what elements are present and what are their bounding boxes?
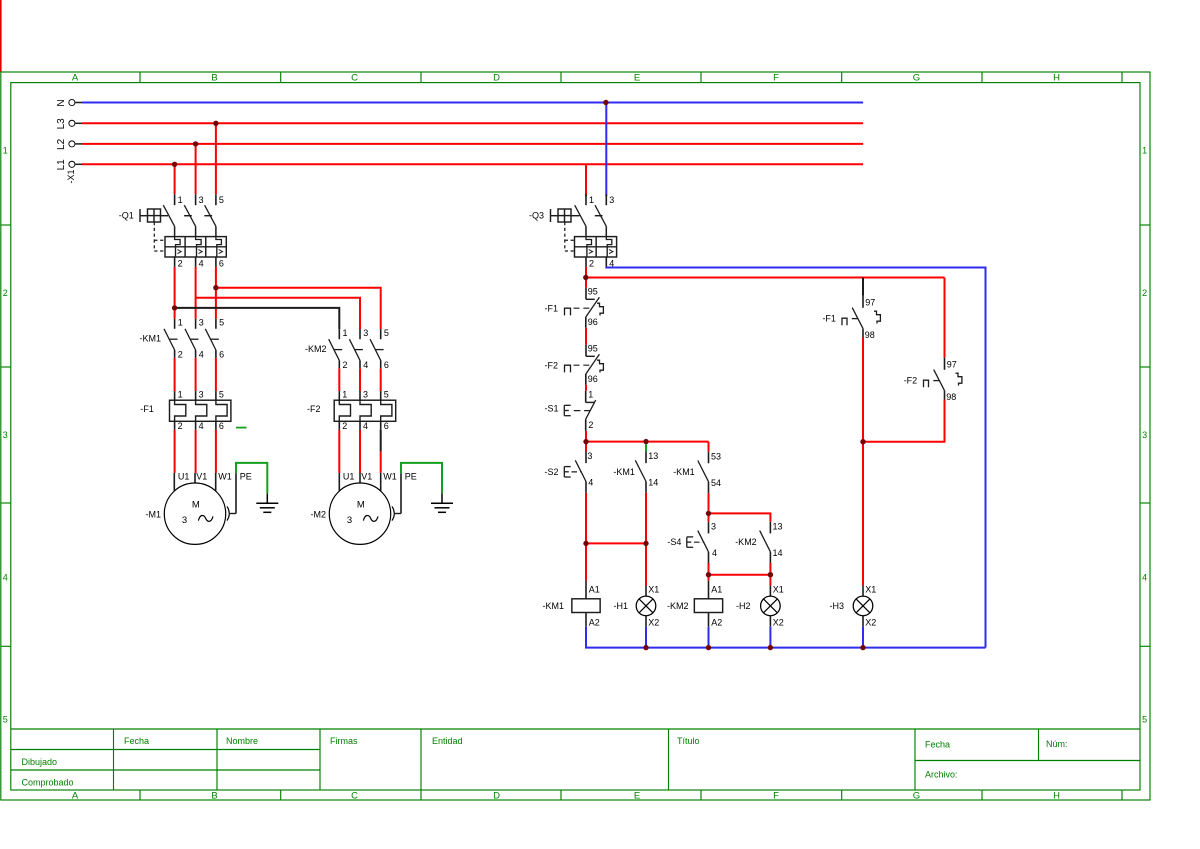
svg-text:X1: X1 bbox=[865, 585, 876, 595]
svg-text:D: D bbox=[493, 72, 500, 83]
svg-text:V1: V1 bbox=[196, 472, 207, 482]
svg-text:PE: PE bbox=[405, 472, 417, 482]
wire feeder to KM2 pin 3 bbox=[196, 298, 360, 329]
svg-text:3: 3 bbox=[199, 195, 204, 205]
svg-text:L1: L1 bbox=[56, 159, 67, 171]
pushbutton S1 stop NC bbox=[545, 390, 596, 431]
svg-text:Fecha: Fecha bbox=[124, 736, 149, 746]
svg-text:6: 6 bbox=[219, 258, 224, 268]
wire bus N bbox=[82, 102, 863, 104]
svg-text:A: A bbox=[72, 790, 79, 801]
svg-text:6: 6 bbox=[384, 421, 389, 431]
svg-text:-X1: -X1 bbox=[66, 169, 76, 183]
thermal overload relay F1 bbox=[140, 390, 231, 431]
svg-text:Núm:: Núm: bbox=[1046, 739, 1068, 749]
svg-text:C: C bbox=[351, 72, 358, 83]
svg-text:-KM2: -KM2 bbox=[735, 537, 757, 547]
svg-text:4: 4 bbox=[363, 360, 368, 370]
earth ground of motor M2 bbox=[431, 494, 453, 513]
svg-text:-S2: -S2 bbox=[545, 467, 559, 477]
svg-text:3: 3 bbox=[347, 515, 352, 526]
wire F1 pin 4 to M1 V1 bbox=[195, 430, 197, 473]
wire L2 down to Q1 pin 3 bbox=[195, 144, 197, 194]
svg-text:2: 2 bbox=[588, 420, 593, 430]
svg-text:3: 3 bbox=[587, 451, 592, 461]
wire to H1 X1 bbox=[645, 543, 647, 585]
junction KM2 A2 on N bbox=[706, 645, 711, 650]
svg-text:-S1: -S1 bbox=[545, 404, 559, 414]
svg-text:X1: X1 bbox=[773, 585, 784, 595]
svg-text:-H2: -H2 bbox=[736, 601, 751, 611]
junction H3 X2 on N bbox=[860, 645, 865, 650]
svg-text:2: 2 bbox=[178, 421, 183, 431]
wire Q1 pin 4 to KM1 pin 3 bbox=[195, 267, 197, 319]
svg-text:-F1: -F1 bbox=[822, 313, 836, 323]
svg-text:Dibujado: Dibujado bbox=[22, 757, 58, 767]
junction S4 to KM2 rung left bbox=[706, 572, 711, 577]
terminal L3 of strip -X1 bbox=[56, 118, 82, 130]
wire L1 down to Q1 pin 1 bbox=[174, 164, 176, 194]
junction N to Q3 bbox=[603, 100, 608, 105]
svg-text:A1: A1 bbox=[711, 585, 722, 595]
svg-text:Firmas: Firmas bbox=[330, 736, 358, 746]
wire H2 X2 to N bbox=[769, 627, 771, 648]
wire F1 pin 6 to M1 W1 bbox=[215, 430, 217, 473]
junction S2 retention left bbox=[583, 541, 588, 546]
svg-text:Nombre: Nombre bbox=[226, 736, 258, 746]
svg-text:4: 4 bbox=[3, 573, 8, 583]
svg-text:-KM1: -KM1 bbox=[673, 467, 695, 477]
wire KM1 to F1 pole 1 bbox=[174, 358, 176, 391]
wire rung to S4 pin 3 bbox=[708, 513, 710, 521]
wire control L bus bbox=[586, 277, 945, 279]
circuit breaker Q1 bbox=[119, 194, 227, 268]
wire feeder to KM2 pin 1 bbox=[175, 308, 340, 329]
svg-text:Entidad: Entidad bbox=[432, 736, 463, 746]
svg-text:1: 1 bbox=[178, 318, 183, 328]
svg-text:3: 3 bbox=[199, 318, 204, 328]
svg-text:M: M bbox=[192, 500, 200, 511]
svg-text:H: H bbox=[1053, 72, 1060, 83]
wire Q1 pin 6 to KM1 pin 5 bbox=[215, 267, 217, 319]
wire bus L3 bbox=[82, 122, 863, 124]
svg-text:E: E bbox=[634, 72, 640, 83]
svg-text:96: 96 bbox=[588, 374, 598, 384]
wire F1 96 to F2 95 bbox=[585, 328, 587, 345]
wire F2 98 to junction rung bbox=[863, 400, 945, 442]
svg-text:97: 97 bbox=[947, 359, 957, 369]
wire rung to KM1 pin 53 bbox=[708, 442, 710, 452]
svg-text:5: 5 bbox=[384, 328, 389, 338]
svg-text:F: F bbox=[773, 790, 779, 801]
svg-text:13: 13 bbox=[648, 451, 658, 461]
contactor coil KM2 bbox=[667, 581, 723, 628]
wire KM2 to F2 pole 5 bbox=[380, 368, 382, 391]
junction L3 to Q1 bbox=[213, 121, 218, 126]
svg-text:-KM1: -KM1 bbox=[613, 467, 635, 477]
svg-text:-H3: -H3 bbox=[830, 601, 845, 611]
junction H2 X2 on N bbox=[768, 645, 773, 650]
indicator lamp H2 bbox=[736, 585, 784, 628]
thermal overload relay F2 bbox=[307, 390, 396, 431]
svg-text:6: 6 bbox=[219, 349, 224, 359]
svg-text:A1: A1 bbox=[589, 585, 600, 595]
svg-text:2: 2 bbox=[589, 258, 594, 268]
wire L1 down to Q3 pin 1 bbox=[585, 164, 587, 196]
wire retention rung bbox=[586, 542, 646, 544]
F1 auxiliary NC contact 95-96 bbox=[545, 287, 604, 328]
pushbutton S2 start NO bbox=[545, 451, 594, 493]
junction L1 to Q1 bbox=[172, 162, 177, 167]
wire F2 pin 6 to M2 W1 red bbox=[380, 451, 382, 473]
svg-text:2: 2 bbox=[178, 349, 183, 359]
label terminal strip -X1 bbox=[66, 169, 76, 183]
svg-text:Título: Título bbox=[677, 736, 700, 746]
svg-text:95: 95 bbox=[588, 287, 598, 297]
svg-text:3: 3 bbox=[182, 515, 187, 526]
wire KM1 to F1 pole 3 bbox=[195, 358, 197, 391]
junction F1 98 with F2 98 bbox=[860, 439, 865, 444]
svg-text:6: 6 bbox=[219, 421, 224, 431]
svg-text:F: F bbox=[773, 72, 779, 83]
wire S2 pin 4 down bbox=[585, 493, 587, 544]
svg-text:-Q3: -Q3 bbox=[529, 211, 544, 221]
svg-text:C: C bbox=[351, 790, 358, 801]
wire F2 pin 2 to M2 U1 bbox=[338, 430, 340, 473]
wire rung to KM1 13 and 53 bbox=[586, 441, 709, 443]
wire bus L2 bbox=[82, 143, 863, 145]
svg-text:-KM2: -KM2 bbox=[305, 344, 327, 354]
svg-text:14: 14 bbox=[773, 548, 783, 558]
wire control bus to F1 97 bbox=[862, 278, 864, 296]
wire rung to KM2 13 bbox=[709, 513, 771, 521]
svg-text:1: 1 bbox=[588, 390, 593, 400]
svg-text:U1: U1 bbox=[178, 472, 190, 482]
svg-text:V1: V1 bbox=[361, 472, 372, 482]
svg-text:D: D bbox=[493, 790, 500, 801]
wire control bus corner to F2 97 bbox=[944, 278, 946, 358]
junction rung to KM1 13 bbox=[643, 439, 648, 444]
junction L2 to Q1 bbox=[193, 141, 198, 146]
svg-text:-F1: -F1 bbox=[140, 404, 154, 414]
svg-text:-S4: -S4 bbox=[667, 537, 681, 547]
junction KM2 rung right bbox=[768, 572, 773, 577]
svg-text:L3: L3 bbox=[56, 118, 67, 130]
svg-text:B: B bbox=[211, 790, 217, 801]
svg-text:-F2: -F2 bbox=[307, 404, 321, 414]
svg-text:4: 4 bbox=[199, 421, 204, 431]
svg-text:5: 5 bbox=[384, 390, 389, 400]
svg-text:1: 1 bbox=[3, 146, 8, 156]
svg-text:3: 3 bbox=[1142, 430, 1147, 440]
svg-text:4: 4 bbox=[199, 349, 204, 359]
svg-text:E: E bbox=[634, 790, 640, 801]
svg-text:4: 4 bbox=[363, 421, 368, 431]
svg-text:4: 4 bbox=[712, 548, 717, 558]
wire KM1 A2 to N bbox=[586, 627, 986, 648]
contactor KM1 main contacts bbox=[140, 318, 225, 360]
wire F2 pin 4 to M2 V1 bbox=[359, 430, 361, 473]
wire to KM1 coil A1 bbox=[585, 543, 587, 580]
svg-text:14: 14 bbox=[648, 478, 658, 488]
KM1 auxiliary contact 53-54 bbox=[673, 451, 721, 493]
svg-text:-KM1: -KM1 bbox=[543, 601, 565, 611]
svg-text:W1: W1 bbox=[383, 472, 397, 482]
KM2 auxiliary contact 13-14 bbox=[735, 522, 782, 564]
svg-text:A2: A2 bbox=[589, 617, 600, 627]
circuit breaker Q3 bbox=[529, 194, 617, 268]
F1 auxiliary NO contact 97-98 bbox=[822, 296, 880, 340]
wire bus L1 bbox=[82, 163, 863, 165]
svg-text:1: 1 bbox=[342, 390, 347, 400]
svg-text:X2: X2 bbox=[773, 617, 784, 627]
svg-text:H: H bbox=[1053, 790, 1060, 801]
svg-text:6: 6 bbox=[384, 360, 389, 370]
svg-text:PE: PE bbox=[240, 472, 252, 482]
wire PE of motor M1 to earth bbox=[236, 463, 267, 494]
svg-text:M: M bbox=[357, 500, 365, 511]
wire F2 pin 6 to M2 W1 black bbox=[380, 430, 382, 452]
svg-text:-Q1: -Q1 bbox=[119, 211, 134, 221]
stray wire segment green bbox=[236, 427, 247, 429]
svg-text:4: 4 bbox=[199, 258, 204, 268]
wire KM1 pin 14 down bbox=[645, 493, 647, 544]
svg-text:X2: X2 bbox=[865, 617, 876, 627]
wire L3 down to Q1 pin 5 bbox=[215, 123, 217, 194]
wire KM2 A2 to N bbox=[708, 627, 710, 648]
svg-text:X2: X2 bbox=[648, 617, 659, 627]
junction H1 X2 on N bbox=[643, 645, 648, 650]
svg-text:L2: L2 bbox=[56, 138, 67, 150]
svg-text:-F2: -F2 bbox=[545, 360, 559, 370]
svg-text:5: 5 bbox=[219, 195, 224, 205]
svg-text:Archivo:: Archivo: bbox=[925, 770, 958, 780]
svg-text:54: 54 bbox=[711, 478, 721, 488]
svg-text:-F2: -F2 bbox=[904, 375, 918, 385]
wire KM2 pin 14 down bbox=[769, 563, 771, 575]
svg-text:1: 1 bbox=[178, 195, 183, 205]
svg-text:-M2: -M2 bbox=[311, 510, 327, 520]
svg-text:53: 53 bbox=[711, 451, 721, 461]
wire Q1 pin 2 to KM1 pin 1 bbox=[174, 267, 176, 319]
motor M2 bbox=[311, 472, 417, 545]
wire KM1 pin 54 down bbox=[708, 493, 710, 514]
svg-text:A2: A2 bbox=[711, 617, 722, 627]
svg-text:G: G bbox=[913, 72, 920, 83]
svg-text:2: 2 bbox=[342, 421, 347, 431]
svg-text:-KM2: -KM2 bbox=[667, 601, 689, 611]
earth ground of motor M1 bbox=[256, 494, 278, 513]
svg-text:3: 3 bbox=[199, 390, 204, 400]
wire to KM2 coil A1 bbox=[708, 575, 710, 581]
indicator lamp H3 bbox=[830, 585, 877, 628]
junction control L bus bbox=[583, 275, 588, 280]
wire N down to Q3 pin 3 bbox=[605, 103, 607, 197]
svg-text:3: 3 bbox=[363, 390, 368, 400]
svg-text:5: 5 bbox=[219, 318, 224, 328]
svg-text:2: 2 bbox=[3, 288, 8, 298]
KM1 auxiliary contact 13-14 bbox=[613, 451, 658, 493]
wire control N from Q3 pin 4 bbox=[606, 267, 985, 648]
svg-text:A: A bbox=[72, 72, 79, 83]
svg-text:13: 13 bbox=[773, 522, 783, 532]
indicator lamp H1 bbox=[614, 585, 660, 628]
wire H3 X2 to N bbox=[862, 627, 864, 648]
wire F2 96 to S1 pin 1 bbox=[585, 385, 587, 391]
svg-text:3: 3 bbox=[363, 328, 368, 338]
wire to H2 X1 bbox=[769, 575, 771, 586]
svg-text:Comprobado: Comprobado bbox=[22, 777, 74, 787]
wire F1 98 down to H3 bbox=[862, 338, 864, 586]
svg-text:-KM1: -KM1 bbox=[140, 334, 162, 344]
F2 auxiliary NC contact 95-96 bbox=[545, 344, 604, 385]
svg-text:5: 5 bbox=[3, 715, 8, 725]
terminal L1 of strip -X1 bbox=[56, 159, 82, 171]
wire S1 pin 2 down bbox=[585, 431, 587, 442]
svg-text:B: B bbox=[211, 72, 217, 83]
svg-text:1: 1 bbox=[1142, 146, 1147, 156]
svg-text:2: 2 bbox=[178, 258, 183, 268]
wire KM2 to F2 pole 1 bbox=[338, 368, 340, 391]
svg-text:N: N bbox=[56, 99, 67, 106]
svg-text:2: 2 bbox=[343, 360, 348, 370]
svg-text:2: 2 bbox=[1142, 288, 1147, 298]
junction KM1 retention right bbox=[643, 541, 648, 546]
svg-text:X1: X1 bbox=[648, 585, 659, 595]
svg-text:Fecha: Fecha bbox=[925, 740, 950, 750]
terminal N of strip -X1 bbox=[56, 99, 82, 106]
wire KM1 to F1 pole 5 bbox=[215, 358, 217, 391]
svg-text:1: 1 bbox=[343, 328, 348, 338]
svg-text:4: 4 bbox=[588, 478, 593, 488]
wire Q3 pin 2 to control bus bbox=[585, 267, 587, 288]
svg-text:96: 96 bbox=[588, 317, 598, 327]
svg-text:-M1: -M1 bbox=[146, 510, 162, 520]
wire feeder to KM2 pin 5 bbox=[216, 288, 381, 329]
svg-text:98: 98 bbox=[946, 392, 956, 402]
svg-text:98: 98 bbox=[865, 330, 875, 340]
junction Q1 pin 2 feeder bbox=[172, 305, 177, 310]
wire S4 pin 4 down bbox=[708, 563, 710, 575]
svg-text:W1: W1 bbox=[218, 472, 232, 482]
svg-text:97: 97 bbox=[865, 297, 875, 307]
wire KM2 parallel rung bbox=[709, 574, 771, 576]
svg-text:3: 3 bbox=[3, 430, 8, 440]
wire rung to S2 pin 3 bbox=[585, 442, 587, 452]
wire PE of motor M2 to earth bbox=[401, 463, 442, 494]
wire H1 X2 to N bbox=[645, 627, 647, 648]
wire KM2 to F2 pole 3 bbox=[359, 368, 361, 391]
junction KM1 54 to S4 rung bbox=[706, 511, 711, 516]
svg-text:95: 95 bbox=[588, 344, 598, 354]
junction Q1 pin 6 feeder bbox=[213, 285, 218, 290]
svg-text:5: 5 bbox=[1142, 715, 1147, 725]
contactor KM2 main contacts bbox=[305, 328, 389, 370]
junction S1 to rung bbox=[583, 439, 588, 444]
svg-text:1: 1 bbox=[589, 195, 594, 205]
motor M1 bbox=[146, 472, 252, 545]
svg-text:-H1: -H1 bbox=[614, 601, 629, 611]
terminal L2 of strip -X1 bbox=[56, 138, 82, 150]
svg-text:-F1: -F1 bbox=[545, 303, 559, 313]
wire F1 pin 2 to M1 U1 bbox=[174, 430, 176, 473]
svg-text:U1: U1 bbox=[343, 472, 355, 482]
pushbutton S4 start NO bbox=[667, 522, 717, 564]
svg-text:4: 4 bbox=[1142, 573, 1147, 583]
F2 auxiliary NO contact 97-98 bbox=[904, 358, 962, 402]
svg-text:1: 1 bbox=[178, 390, 183, 400]
wire green rung to KM1 pin 13 bbox=[645, 444, 647, 451]
svg-text:G: G bbox=[913, 790, 920, 801]
contactor coil KM1 bbox=[543, 581, 601, 628]
svg-text:5: 5 bbox=[219, 390, 224, 400]
svg-text:3: 3 bbox=[711, 522, 716, 532]
svg-text:3: 3 bbox=[609, 195, 614, 205]
